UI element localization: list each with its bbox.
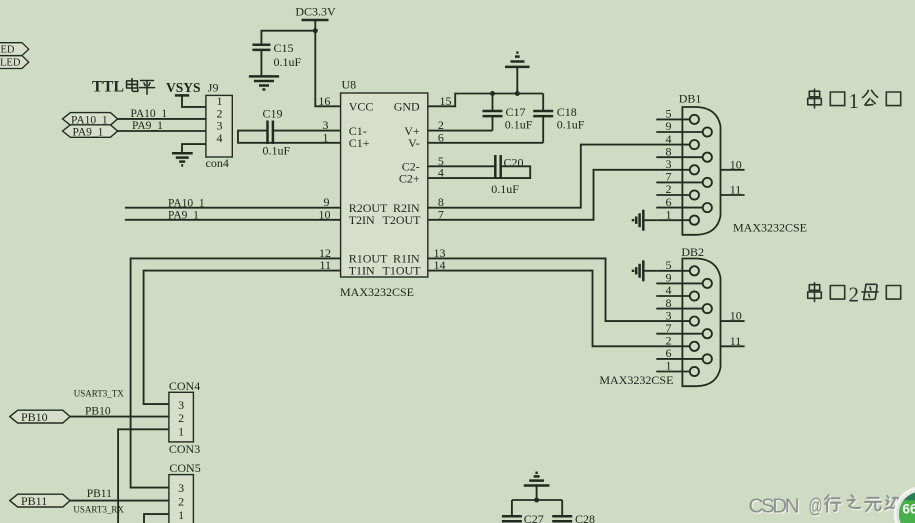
ground (DB1 pin1, rotated): [633, 210, 656, 231]
svg-text:4: 4: [217, 131, 223, 145]
DB2 pin 10 stub: [721, 309, 745, 323]
svg-text:C1+: C1+: [349, 136, 370, 150]
power DC3.3V: [295, 5, 336, 21]
wire ground to C27/C28 rail: [536, 486, 538, 501]
svg-text:16: 16: [318, 94, 330, 108]
connector DB1 body: [679, 92, 721, 235]
svg-text:con4: con4: [206, 156, 229, 170]
badge CSDN level 66: [895, 488, 915, 523]
wire C19 left plate loop to U8 pin1: [238, 131, 341, 143]
wire PA9_1 to J9 pin3: [118, 130, 206, 132]
svg-text:PA9_1: PA9_1: [73, 126, 104, 138]
ground (top, inverted): [505, 53, 530, 94]
svg-text:T1IN: T1IN: [349, 264, 375, 278]
net flag ED (cut off at left edge): [0, 43, 29, 56]
svg-text:PA10_1: PA10_1: [168, 197, 205, 209]
DB1 pin circles: [690, 115, 712, 225]
title 串口1公口: [808, 89, 901, 113]
wire DC3.3V down to U8 pin16: [315, 20, 340, 106]
watermark CSDN @行之无边: [749, 494, 903, 519]
svg-text:PA10_1: PA10_1: [131, 108, 168, 120]
svg-text:C27: C27: [524, 512, 544, 523]
wire PB11 to CON5 pin2: [70, 500, 169, 502]
wire PA9_1 to U8 pin10: [125, 219, 341, 221]
net flag PA9_1: [63, 125, 118, 139]
svg-text:66: 66: [903, 502, 915, 517]
svg-text:11: 11: [730, 334, 742, 348]
wire C19 right plate to U8 pin3: [273, 130, 341, 132]
DB2 pin circles: [690, 266, 712, 376]
svg-text:C15: C15: [274, 41, 294, 55]
junction at DC3.3V branch: [313, 28, 318, 33]
DB1 pin stubs: [656, 119, 702, 220]
connector CON5: [169, 461, 201, 523]
svg-text:0.1uF: 0.1uF: [274, 55, 302, 69]
wire VSYS to J9 pin1: [182, 95, 206, 107]
svg-text:0.1uF: 0.1uF: [505, 117, 533, 131]
wire PB10 to CON4 pin2: [70, 416, 169, 418]
net flag PB11: [10, 494, 70, 508]
ground (C15): [249, 76, 279, 89]
svg-text:MAX3232CSE: MAX3232CSE: [599, 373, 673, 387]
DB1 pin 11 stub: [721, 183, 745, 197]
svg-text:0.1uF: 0.1uF: [491, 182, 519, 196]
net flag PB10: [10, 410, 70, 424]
svg-text:VCC: VCC: [349, 99, 374, 113]
connector DB2 body: [681, 245, 720, 386]
svg-text:PB11: PB11: [87, 488, 112, 500]
capacitor C28: [552, 500, 595, 523]
svg-text:@: @: [809, 494, 823, 517]
wire C20 loop to U8 pin4 C2+: [428, 166, 530, 178]
svg-text:USART3_RX: USART3_RX: [73, 505, 124, 515]
op-amp U8 MAX3232CSE body: [340, 78, 428, 300]
DB2 pin stubs: [656, 271, 702, 372]
svg-text:LED: LED: [0, 58, 21, 69]
svg-text:U8: U8: [342, 78, 357, 92]
capacitor C19: [263, 106, 291, 157]
DB2 pin numbers: [666, 258, 672, 373]
svg-text:PB11: PB11: [21, 494, 47, 508]
svg-text:1: 1: [178, 424, 184, 438]
svg-text:CON5: CON5: [169, 461, 200, 475]
svg-text:C19: C19: [263, 106, 283, 120]
wire U8 pin8 R2IN to DB1 pin4: [428, 145, 657, 208]
title TTL电平: [92, 78, 154, 95]
svg-text:1: 1: [849, 89, 860, 113]
svg-text:CON3: CON3: [169, 442, 200, 456]
svg-text:CSDN: CSDN: [749, 494, 800, 517]
net flag PA10_1: [63, 113, 118, 127]
capacitor C27: [502, 500, 544, 523]
junction ground stem: [515, 91, 520, 96]
wire C18 to U8 pin6 V-: [428, 142, 543, 144]
svg-text:T1OUT: T1OUT: [383, 264, 422, 278]
DB1 pin 10 stub: [721, 157, 745, 171]
capacitor C17: [483, 94, 533, 132]
wire U8 pin12 R1OUT to CON5 pin3: [131, 258, 341, 487]
wire PA10_1 to J9 pin2: [118, 118, 206, 120]
svg-text:GND: GND: [394, 99, 420, 113]
wire rail: [512, 499, 562, 501]
net flag LED (cut off at left edge): [0, 56, 29, 69]
wire CON4 pin1 down to edge: [118, 429, 169, 523]
wire CON5 pin1 down to edge: [144, 514, 169, 523]
ground (J9): [172, 153, 193, 165]
svg-text:J9: J9: [208, 80, 219, 94]
svg-text:1: 1: [666, 359, 672, 373]
svg-text:PB10: PB10: [21, 410, 48, 424]
svg-text:C28: C28: [575, 512, 595, 523]
connector CON4: [169, 379, 200, 456]
DB1 pin numbers: [666, 107, 672, 222]
wire U8 pin11 T1IN to CON4 pin3: [144, 271, 341, 405]
svg-text:2: 2: [849, 282, 860, 306]
svg-text:ED: ED: [1, 45, 15, 56]
svg-text:PB10: PB10: [85, 405, 111, 417]
svg-text:T2IN: T2IN: [349, 213, 375, 227]
svg-text:10: 10: [730, 157, 742, 171]
power VSYS: [166, 80, 201, 95]
svg-text:C2+: C2+: [399, 171, 420, 185]
wire branch to C15: [261, 31, 315, 45]
wire U8 pin5 C2- to C20: [428, 165, 496, 167]
svg-text:T2OUT: T2OUT: [383, 213, 422, 227]
junction C17 stem: [490, 91, 495, 96]
svg-text:11: 11: [730, 183, 742, 197]
wire C15 to ground: [260, 50, 262, 77]
svg-text:TTL: TTL: [92, 79, 124, 96]
svg-text:DB2: DB2: [681, 245, 704, 259]
wire U8 pin7 T2OUT to DB1 pin3: [428, 170, 657, 220]
svg-text:USART3_TX: USART3_TX: [74, 389, 124, 399]
capacitor C20: [491, 155, 523, 196]
svg-text:MAX3232CSE: MAX3232CSE: [340, 285, 414, 299]
connector J9: [206, 80, 233, 169]
svg-text:2: 2: [178, 495, 184, 509]
svg-text:10: 10: [730, 309, 742, 323]
ground (DB2 pin5, rotated): [633, 260, 656, 281]
U8 pin numbers: [318, 94, 451, 272]
junction C27/C28 rail: [534, 498, 539, 503]
svg-text:3: 3: [178, 398, 184, 412]
wire U8 pin13 R1IN to DB2 pin3: [428, 258, 657, 321]
capacitor C18: [533, 94, 585, 143]
svg-text:1: 1: [666, 207, 672, 221]
wire U8 pin14 T1OUT to DB2 pin2: [428, 271, 657, 347]
svg-text:2: 2: [178, 411, 184, 425]
svg-text:PA9_1: PA9_1: [132, 120, 163, 132]
svg-text:V-: V-: [408, 136, 420, 150]
svg-text:PA9_1: PA9_1: [168, 209, 199, 221]
DB2 pin 11 stub: [721, 334, 745, 348]
title 串口2母口: [808, 282, 901, 306]
svg-text:MAX3232CSE: MAX3232CSE: [733, 221, 807, 235]
ground (C27/C28, inverted): [524, 473, 550, 486]
svg-text:3: 3: [178, 481, 184, 495]
svg-text:DB1: DB1: [679, 92, 702, 106]
capacitor C15: [252, 41, 301, 69]
svg-text:CON4: CON4: [169, 379, 200, 393]
wire C17 to U8 pin2 V+: [428, 130, 493, 132]
wire PA10_1 to U8 pin9: [125, 207, 341, 209]
svg-text:C20: C20: [504, 156, 524, 170]
wire J9 pin4 to ground: [182, 144, 206, 153]
svg-text:0.1uF: 0.1uF: [557, 117, 585, 131]
svg-text:VSYS: VSYS: [166, 80, 201, 95]
svg-text:0.1uF: 0.1uF: [263, 144, 291, 158]
svg-text:1: 1: [178, 508, 184, 522]
svg-text:DC3.3V: DC3.3V: [295, 5, 336, 19]
wire U8 pin15 GND rail: [428, 94, 543, 107]
U8 pin names: [349, 99, 421, 277]
